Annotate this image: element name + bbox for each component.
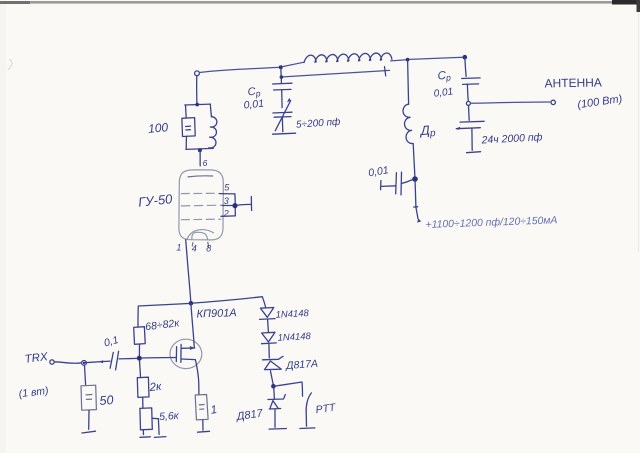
tube inner bottom arc [187,230,213,239]
choke Dr (anode RF choke) [403,104,413,143]
svg-text:50: 50 [99,393,114,408]
junction J3 (choke tap) [406,58,410,62]
parallel coil L2 [209,104,217,148]
wire J4 down to Cp2 [465,57,466,76]
B+ wire small tick [414,206,418,208]
wire TRX terminal to junction [54,362,81,363]
svg-text:24ч 2000 пф: 24ч 2000 пф [480,131,543,146]
ground under 5,6k right [154,436,166,439]
grid dashed line 1 [181,192,219,194]
junction J6 (B+ node) [412,176,418,182]
svg-text:PTT: PTT [315,401,338,416]
wire coil to J3 [391,60,407,61]
wire grids to tick [238,203,251,206]
svg-text:68÷82к: 68÷82к [145,317,181,333]
heater arch [192,232,208,239]
wire N2 down [468,105,471,120]
grid mid lead (pin 3) [222,205,233,207]
svg-text:5: 5 [224,183,230,193]
svg-text:1: 1 [176,243,181,253]
junction drain node [189,301,194,306]
junction RL bottom [198,148,202,152]
wire J5 to PTT [276,382,303,396]
tap line end tick [385,67,386,76]
resistor 1 (source) [195,395,208,431]
junction grids [232,203,237,208]
zener D3 D817A [263,356,284,385]
svg-text:КП901А: КП901А [196,307,237,320]
node A (anode top node) [195,71,200,76]
wire J1 to coil [283,62,304,66]
svg-text:0,01: 0,01 [367,164,389,179]
svg-text:100: 100 [148,120,169,136]
resistor R1 100 anode [182,105,195,149]
wire gate junction to gate [142,357,177,360]
junction J1 [279,65,283,69]
MOSFET source tick [181,358,195,361]
svg-text:5,6к: 5,6к [159,410,180,423]
svg-text:6: 6 [203,158,208,168]
svg-text:2к: 2к [148,381,162,394]
grid wire end tick [250,197,252,211]
svg-text:АНТЕННА: АНТЕННА [544,75,602,90]
svg-text:Д817: Д817 [234,407,264,423]
MOSFET channel bar [180,344,182,362]
ground under D817 [269,428,286,431]
node N2 [466,101,470,105]
wire J3 down to choke [408,60,409,104]
PTT switch lever [306,393,311,413]
wire drain node to feedback resistor [138,304,189,327]
junction J2 [280,75,284,79]
grid bracket bottom (pin 2) [221,215,235,217]
svg-text:2: 2 [223,209,229,219]
svg-text:(100 Вт): (100 Вт) [577,93,624,111]
svg-text:Др: Др [418,122,437,140]
ground under 1 [198,430,210,433]
junction J5 [271,384,276,389]
RL bottom bar [186,148,213,149]
variable capacitor C tune 5-200pf [273,98,292,132]
grid dashed line 2 [181,204,222,207]
junction J4 (antenna cap tap) [463,55,468,60]
wire PTT to ground [305,413,307,426]
ground under 5,6k left [140,436,150,439]
wire drain node to diode chain [193,297,266,308]
wire RL to tube anode [199,151,201,166]
capacitor Cp 0,01 (antenna coupling) [462,78,481,101]
svg-text:TRX: TRX [24,351,50,366]
ground under PTT [300,427,315,430]
MOSFET drain tick with arrow [181,347,194,349]
MOSFET Q1 circle [170,339,202,368]
resistor 68-82k [134,327,146,357]
svg-text:1N4148: 1N4148 [275,308,310,321]
wire J6 down to B+ [415,182,418,219]
faint pen speck left [9,60,13,70]
junction RL top [195,103,199,107]
svg-text:4: 4 [192,244,197,254]
anode plate bar [188,176,213,177]
grid dashed line 3 [181,218,221,221]
svg-text:1: 1 [210,404,218,417]
svg-text:ГУ-50: ГУ-50 [137,191,173,210]
wire node A down to RL [196,76,198,104]
svg-text:Д817А: Д817А [285,358,319,372]
drain lead [191,304,194,348]
svg-text:0,1: 0,1 [103,334,120,350]
MOSFET gate bar [175,347,177,362]
TRX terminal [50,360,54,364]
wire J3 to J4 [410,57,464,59]
TRX junction [82,361,87,366]
cathode wire down [186,240,191,303]
wire gate junction down [140,360,141,376]
tube U1 GU-50 envelope [179,170,223,240]
svg-text:5÷200 пф: 5÷200 пф [296,116,342,131]
grid bracket vertical [234,194,236,216]
capacitor Cp 0,01 (top left) [273,77,292,107]
wire N2 to antenna terminal [471,102,550,103]
wire node A to J1 [199,67,278,72]
diode D1 1N4148 [260,308,276,332]
ground under 50 [82,431,96,433]
svg-text:0,01: 0,01 [243,98,265,112]
zener D4 D817 [268,387,285,428]
diode D2 1N4148 [262,332,277,358]
antenna terminal [551,100,555,104]
svg-text:0,01: 0,01 [433,86,454,99]
loading capacitor 24u 2000pf [456,121,484,150]
wire J2 long tap line [283,70,389,77]
pin 1 tick [191,243,194,246]
tank coil L1 [304,53,392,63]
ground under tuning cap [273,133,296,134]
source lead [195,360,199,395]
svg-text:8: 8 [206,244,211,254]
svg-text:Cp: Cp [437,69,452,83]
wire J1 to J2 [280,67,282,77]
resistor 2k [137,377,149,408]
svg-text:(1 вт): (1 вт) [18,385,49,401]
capacitor C2 0,1 [85,351,138,370]
ground under loading cap [467,152,481,153]
resistor 5,6k [140,408,159,435]
svg-text:1N4148: 1N4148 [277,331,312,344]
RL top bar [185,103,211,106]
capacitor C3 0,01 bypass [381,172,413,195]
pin 8 tick [207,242,210,247]
wire choke to J6 [413,144,415,177]
svg-text:+1100÷1200 пф/120÷150мА: +1100÷1200 пф/120÷150мА [425,214,557,231]
grid bracket top (pin 5) [220,193,235,195]
resistor 50 [81,365,96,429]
B+ arrow end [417,218,421,222]
svg-text:3: 3 [224,196,229,206]
gate junction [137,356,142,361]
